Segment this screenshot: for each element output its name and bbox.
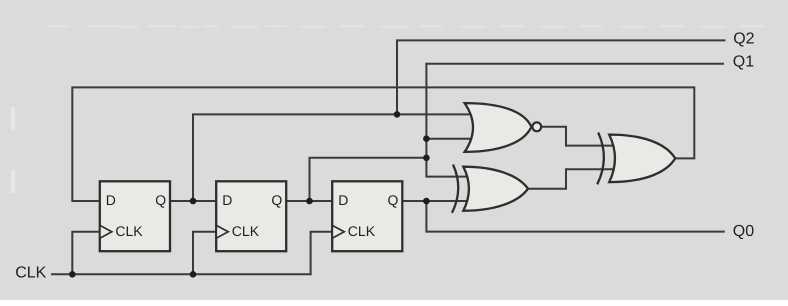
- wire Q1 vertical to XOR1 input 1: [426, 64, 467, 177]
- wire node Q2 branch up to NOR input 1: [193, 114, 471, 201]
- node CLK-FF2: [190, 271, 197, 278]
- wire FF2 Q to FF3 D: [286, 200, 332, 202]
- svg-text:Q0: Q0: [733, 223, 754, 240]
- wire CLK to FF3 clock: [311, 232, 333, 274]
- svg-text:CLK: CLK: [115, 223, 143, 239]
- svg-text:Q: Q: [155, 192, 166, 208]
- svg-text:CLK: CLK: [15, 265, 46, 282]
- node Q1-NOR: [423, 135, 430, 142]
- wire FF3 Q to XOR1 input 2: [402, 200, 467, 202]
- flip-flop U2 (D flip-flop): [216, 181, 286, 251]
- wire Q2 output line: [397, 40, 725, 114]
- node Q0 at FF3 Q: [423, 198, 430, 205]
- wire FF1 Q to FF2 D: [170, 200, 216, 202]
- wire Q0 output line: [426, 201, 723, 232]
- flip-flop U1 (D flip-flop): [100, 181, 170, 251]
- svg-text:D: D: [106, 192, 116, 208]
- gate XOR U5: [452, 165, 528, 213]
- svg-text:Q1: Q1: [733, 54, 754, 71]
- wire Q1 output line: [426, 63, 723, 65]
- svg-text:CLK: CLK: [348, 223, 376, 239]
- wire CLK trunk: [52, 273, 311, 275]
- node CLK-FF1: [69, 271, 76, 278]
- svg-text:D: D: [338, 192, 348, 208]
- svg-text:CLK: CLK: [232, 223, 260, 239]
- svg-text:Q: Q: [271, 192, 282, 208]
- wire XOR1 output to XOR2 input 2: [528, 169, 613, 188]
- wire feedback XOR2 output to FF1 D: [72, 87, 694, 201]
- wire node Q1 branch up: [310, 158, 427, 201]
- gate NOR U4: [465, 103, 542, 152]
- svg-text:Q: Q: [388, 192, 399, 208]
- svg-text:D: D: [222, 192, 232, 208]
- flip-flop U3 (D flip-flop): [332, 181, 402, 251]
- node Q2 at FF1 Q: [190, 198, 197, 205]
- node Q1 at FF2 Q: [306, 198, 313, 205]
- node Q1-XOR1: [423, 155, 430, 162]
- wire Q1 to NOR input 2: [426, 138, 470, 140]
- wire CLK to FF1 clock: [72, 232, 100, 274]
- wire CLK to FF2 clock: [193, 232, 216, 274]
- svg-text:Q2: Q2: [733, 30, 754, 47]
- node Q2-NOR: [394, 111, 401, 118]
- wire NOR output to XOR2 input 1: [542, 127, 614, 146]
- gate XOR U6: [597, 133, 675, 185]
